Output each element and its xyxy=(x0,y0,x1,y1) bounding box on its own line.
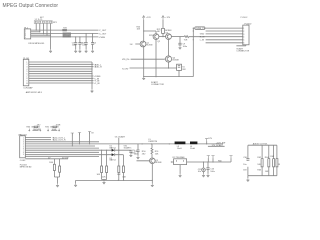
diode D1 xyxy=(110,146,131,152)
wire 12v aux xyxy=(208,144,225,147)
connector PL2002 SCART xyxy=(236,17,252,53)
svg-text:VID_IN›: VID_IN› xyxy=(122,59,130,61)
svg-text:MPEG IN BD: MPEG IN BD xyxy=(20,167,32,169)
resistor R21 xyxy=(157,20,165,38)
svg-text:L_IN: L_IN xyxy=(200,40,205,42)
power 12V T xyxy=(205,138,213,144)
svg-text:CON9: CON9 xyxy=(20,160,26,162)
svg-text:BC848: BC848 xyxy=(165,30,172,32)
wire collector feed xyxy=(143,30,156,33)
svg-text:PL2003: PL2003 xyxy=(20,134,28,136)
capacitor C4 xyxy=(91,33,97,53)
resistor R40 xyxy=(101,150,103,180)
svg-text:100R: 100R xyxy=(56,125,61,127)
svg-text:BC848: BC848 xyxy=(155,162,162,164)
capacitor C2 xyxy=(78,36,84,53)
ground return vertical xyxy=(193,28,195,77)
wire row1 luma xyxy=(31,29,99,31)
label L5 xyxy=(149,139,158,143)
link LK1 xyxy=(27,125,42,132)
transistor Q5 xyxy=(137,158,163,187)
capacitor C1 xyxy=(72,36,78,53)
svg-text:3: 3 xyxy=(243,34,244,36)
svg-text:AMP MICRO MLX: AMP MICRO MLX xyxy=(26,91,43,94)
rail x143 xyxy=(143,20,145,77)
link LK2 xyxy=(45,125,61,132)
svg-text:4: 4 xyxy=(243,37,244,39)
svg-text:CONNECTOR: CONNECTOR xyxy=(151,84,164,86)
label scart connector xyxy=(151,81,164,86)
gnd rail bottom xyxy=(74,180,152,187)
svg-text:IC2 78L05ME: IC2 78L05ME xyxy=(172,157,185,159)
resistor R50 xyxy=(142,144,160,158)
node T2_IN xyxy=(122,67,177,70)
svg-text:+12V: +12V xyxy=(165,17,170,19)
net labels PL1 xyxy=(94,63,102,85)
resistor R63 xyxy=(265,157,270,173)
capacitor C21 xyxy=(131,144,140,159)
scart wires xyxy=(200,28,243,43)
wire row2 xyxy=(31,31,40,33)
wire pin10 row xyxy=(25,157,69,159)
ferrite bead L2 xyxy=(63,35,71,37)
svg-text:100n: 100n xyxy=(131,152,135,154)
wire Q2-Q3 xyxy=(159,36,166,38)
resistor R64 xyxy=(270,156,282,166)
svg-text:75R: 75R xyxy=(63,28,67,30)
svg-text:BC848: BC848 xyxy=(173,60,180,62)
svg-text:2: 2 xyxy=(243,31,244,33)
capacitor C3 xyxy=(82,33,88,53)
vcc stub A xyxy=(71,133,74,147)
relay box U2 xyxy=(177,64,187,76)
svg-text:›Y_OUT: ›Y_OUT xyxy=(99,30,107,32)
power T E xyxy=(229,156,232,163)
svg-text:75R: 75R xyxy=(184,39,188,41)
resistor R41 xyxy=(97,150,108,185)
svg-text:CON10AP: CON10AP xyxy=(23,87,33,90)
svg-text:1: 1 xyxy=(243,28,244,30)
ground wire y76 xyxy=(142,67,193,80)
wire row3 xyxy=(31,33,99,35)
svg-text:5V_EN: 5V_EN xyxy=(62,157,69,159)
junction dots main rail xyxy=(142,143,208,144)
svg-text:›C_OUT: ›C_OUT xyxy=(99,33,107,35)
power T D xyxy=(211,156,214,163)
ferrite bead L3 xyxy=(175,142,186,150)
resistor pack RP1 xyxy=(34,17,58,24)
svg-text:6: 6 xyxy=(243,43,244,45)
net label box CVBS_TV xyxy=(195,27,206,30)
svg-text:›C_IN: ›C_IN xyxy=(94,83,100,85)
resistor R44 xyxy=(49,159,55,177)
ferrite bead L4 xyxy=(190,142,197,150)
ground audio block xyxy=(247,176,250,182)
svg-text:GND: GND xyxy=(200,34,205,36)
regulator U3 box xyxy=(171,157,187,177)
svg-text:5: 5 xyxy=(243,40,244,42)
connector PL1 mid-left xyxy=(23,58,42,94)
svg-text:100n: 100n xyxy=(72,45,76,47)
resistor R2 75R xyxy=(63,28,67,31)
svg-text:AUDIO OUT R/L: AUDIO OUT R/L xyxy=(253,143,269,146)
node VID_IN xyxy=(122,59,165,61)
resistor R42 xyxy=(118,166,120,180)
diode D2 xyxy=(110,153,124,161)
resistor R62 xyxy=(257,157,262,171)
svg-text:›CVBS: ›CVBS xyxy=(99,37,106,39)
power T F xyxy=(207,156,210,163)
svg-text:PL2002: PL2002 xyxy=(241,17,249,19)
net label rows1-2 xyxy=(52,136,66,141)
connector J1 FROM MPEG BD xyxy=(24,28,44,45)
svg-text:›AUD_OUT_R: ›AUD_OUT_R xyxy=(52,139,66,142)
capacitor C9 xyxy=(178,36,187,49)
wire row5 xyxy=(31,36,99,38)
svg-text:R66: R66 xyxy=(278,164,280,166)
svg-text:10: 10 xyxy=(26,83,28,85)
RP1 pin wires xyxy=(36,24,51,37)
net 5V_SCART stub xyxy=(115,135,133,166)
svg-text:10u: 10u xyxy=(243,164,246,166)
vcc stub C xyxy=(88,132,94,145)
svg-text:CVBS_TV: CVBS_TV xyxy=(196,28,206,30)
svg-text:PL101: PL101 xyxy=(23,58,30,60)
svg-text:MPEG Output Connector: MPEG Output Connector xyxy=(3,3,59,9)
ground drop from row4 xyxy=(49,37,52,53)
transistor Q2 xyxy=(149,34,161,77)
svg-text:12V_SCART: 12V_SCART xyxy=(212,144,224,147)
svg-text:PL2002: PL2002 xyxy=(245,24,253,26)
svg-text:BAT54: BAT54 xyxy=(110,147,117,150)
wire to scart row4 xyxy=(189,36,243,38)
resistor R22 75R xyxy=(171,36,189,42)
svg-text:+12V: +12V xyxy=(146,17,151,19)
svg-text:5V›: 5V› xyxy=(130,44,133,46)
svg-text:10uH: 10uH xyxy=(177,148,182,150)
PL2003 wires xyxy=(25,138,223,157)
svg-text:SCART1: SCART1 xyxy=(124,146,133,149)
svg-text:FERRITE: FERRITE xyxy=(149,141,158,143)
svg-text:1 2 3 4 5: 1 2 3 4 5 xyxy=(35,19,44,21)
svg-text:›AUD_R: ›AUD_R xyxy=(94,66,102,69)
svg-text:T2_IN›: T2_IN› xyxy=(122,69,129,71)
svg-text:5V_SCART: 5V_SCART xyxy=(115,135,126,138)
svg-text:1N4148: 1N4148 xyxy=(33,129,41,131)
svg-text:FROM MPEG BD: FROM MPEG BD xyxy=(29,43,45,45)
svg-text:CONNECTOR: CONNECTOR xyxy=(236,51,249,53)
audio pullup block xyxy=(246,143,278,176)
svg-text:BAT54: BAT54 xyxy=(110,159,117,162)
ground rail vertical xyxy=(91,62,94,93)
resistor R61 xyxy=(243,157,248,171)
resistor R43 xyxy=(117,155,127,181)
svg-text:100n: 100n xyxy=(82,45,86,47)
wire row4 xyxy=(31,34,51,36)
transistor Q3 xyxy=(165,30,172,39)
ferrite bead L1 xyxy=(63,33,71,35)
transistor Q1 xyxy=(135,41,153,47)
vcc stub B xyxy=(78,133,81,145)
transistor Q4 xyxy=(165,40,180,69)
svg-text:BC858: BC858 xyxy=(146,45,153,47)
wire reg out xyxy=(187,161,231,163)
svg-text:10u: 10u xyxy=(198,171,201,173)
svg-text:100R: 100R xyxy=(52,129,57,131)
svg-text:100n: 100n xyxy=(183,46,187,48)
connector PL2003 xyxy=(20,134,32,168)
svg-text:10uH: 10uH xyxy=(190,148,195,150)
capacitor C20 xyxy=(129,150,138,157)
supply V2 +12V xyxy=(162,16,171,20)
svg-text:R_IN: R_IN xyxy=(200,37,205,39)
supply V1 +12V xyxy=(142,16,151,20)
label R20 xyxy=(137,27,142,31)
svg-text:100n: 100n xyxy=(210,171,214,173)
PL1 wires xyxy=(29,62,94,83)
capacitor C22 polarized xyxy=(198,161,206,177)
resistor R45 xyxy=(54,159,60,187)
capacitor C23 xyxy=(206,161,215,177)
